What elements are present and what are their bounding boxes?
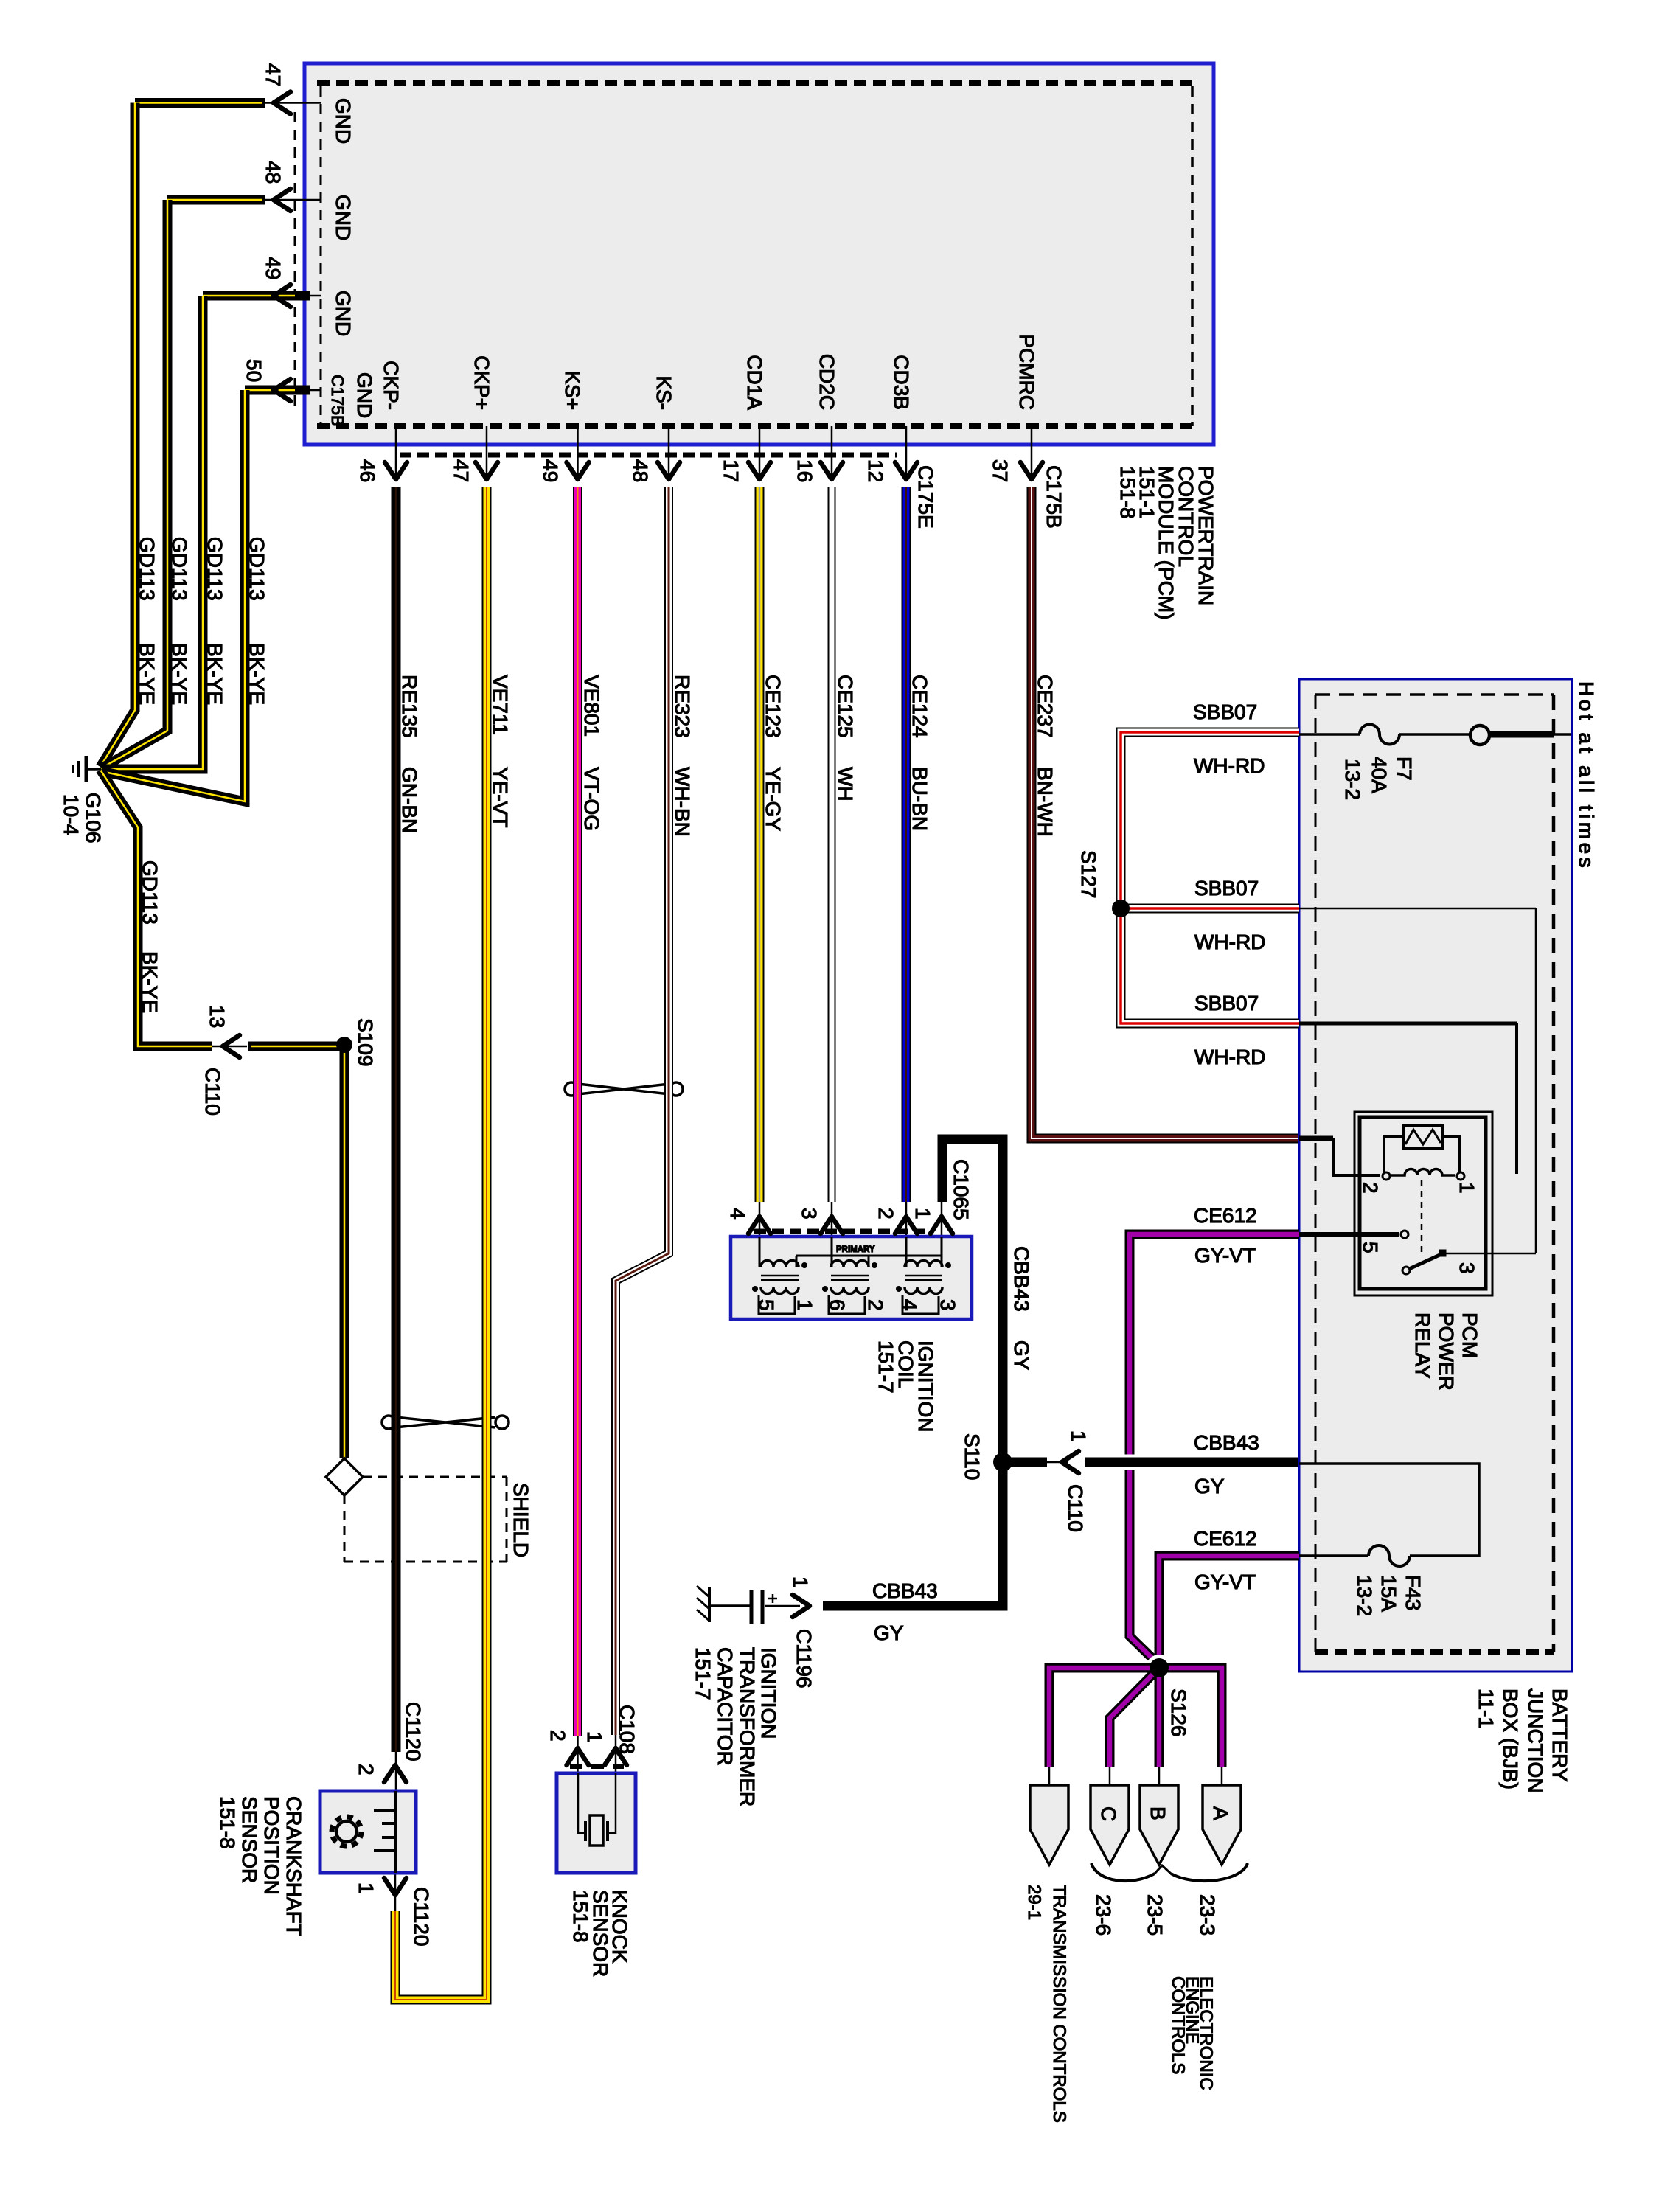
- svg-text:PCM: PCM: [1458, 1312, 1481, 1358]
- svg-text:3: 3: [798, 1208, 821, 1220]
- svg-text:151-8: 151-8: [569, 1890, 592, 1943]
- svg-text:JUNCTION: JUNCTION: [1524, 1688, 1547, 1793]
- svg-text:16: 16: [793, 459, 816, 482]
- svg-text:CKP+: CKP+: [470, 355, 493, 410]
- svg-text:C1065: C1065: [950, 1159, 973, 1220]
- svg-text:3: 3: [1455, 1262, 1478, 1274]
- svg-text:YE-VT: YE-VT: [489, 767, 512, 827]
- svg-text:KS-: KS-: [653, 375, 675, 410]
- svg-text:1: 1: [1067, 1430, 1090, 1442]
- svg-text:48: 48: [262, 161, 285, 184]
- svg-text:BN-WH: BN-WH: [1034, 767, 1057, 837]
- svg-text:151-7: 151-7: [692, 1647, 714, 1700]
- svg-text:RE323: RE323: [671, 675, 694, 738]
- svg-text:CE123: CE123: [762, 675, 785, 738]
- svg-text:2: 2: [864, 1299, 887, 1311]
- svg-text:BK-YE: BK-YE: [246, 643, 268, 705]
- svg-text:CAPACITOR: CAPACITOR: [714, 1647, 737, 1766]
- svg-text:4: 4: [898, 1299, 921, 1311]
- svg-text:C175B: C175B: [328, 375, 347, 426]
- svg-text:3: 3: [936, 1299, 959, 1311]
- svg-text:GD113: GD113: [204, 537, 226, 601]
- svg-text:C110: C110: [1064, 1484, 1087, 1532]
- svg-text:CBB43: CBB43: [872, 1579, 938, 1602]
- svg-text:C108: C108: [616, 1705, 639, 1754]
- svg-text:TRANSMISSION CONTROLS: TRANSMISSION CONTROLS: [1049, 1885, 1069, 2123]
- svg-text:GY-VT: GY-VT: [1194, 1244, 1256, 1267]
- svg-text:10-4: 10-4: [60, 794, 83, 835]
- svg-text:VT-OG: VT-OG: [580, 767, 603, 831]
- svg-text:C: C: [1097, 1806, 1120, 1821]
- svg-text:S110: S110: [961, 1433, 984, 1480]
- svg-text:C175B: C175B: [1043, 465, 1065, 529]
- svg-text:CBB43: CBB43: [1010, 1246, 1033, 1312]
- svg-text:C1120: C1120: [402, 1702, 425, 1761]
- svg-text:1: 1: [789, 1576, 812, 1588]
- svg-text:GD113: GD113: [136, 537, 159, 601]
- svg-text:POSITION: POSITION: [260, 1796, 283, 1895]
- svg-text:G106: G106: [82, 793, 105, 844]
- svg-text:1: 1: [583, 1731, 606, 1743]
- svg-text:151-8: 151-8: [1116, 466, 1139, 519]
- svg-text:GND: GND: [332, 195, 355, 240]
- svg-text:2: 2: [355, 1764, 378, 1775]
- svg-text:B: B: [1147, 1806, 1169, 1820]
- svg-text:GY: GY: [1010, 1340, 1033, 1371]
- svg-text:VE801: VE801: [580, 675, 603, 737]
- svg-text:SENSOR: SENSOR: [238, 1796, 261, 1883]
- svg-text:GY: GY: [874, 1621, 904, 1644]
- svg-text:4: 4: [726, 1208, 749, 1220]
- svg-text:6: 6: [826, 1299, 849, 1311]
- svg-text:151-8: 151-8: [216, 1796, 239, 1849]
- svg-text:SBB07: SBB07: [1194, 877, 1259, 900]
- svg-text:40A: 40A: [1368, 757, 1391, 793]
- svg-text:BK-YE: BK-YE: [136, 643, 159, 705]
- svg-text:13: 13: [206, 1005, 229, 1028]
- svg-text:BOX (BJB): BOX (BJB): [1499, 1688, 1522, 1790]
- svg-text:C110: C110: [201, 1068, 224, 1116]
- svg-text:RE135: RE135: [398, 675, 421, 738]
- svg-text:BATTERY: BATTERY: [1548, 1688, 1571, 1782]
- svg-text:F7: F7: [1393, 757, 1416, 781]
- svg-text:WH-RD: WH-RD: [1194, 1046, 1265, 1068]
- svg-text:5: 5: [755, 1299, 778, 1311]
- svg-text:SBB07: SBB07: [1193, 700, 1257, 723]
- svg-text:GY-VT: GY-VT: [1194, 1571, 1256, 1593]
- svg-text:GY: GY: [1194, 1475, 1225, 1498]
- svg-text:CE124: CE124: [908, 675, 931, 738]
- svg-text:47: 47: [262, 63, 285, 86]
- svg-text:GND: GND: [332, 98, 355, 144]
- svg-text:151-7: 151-7: [874, 1340, 897, 1394]
- svg-text:KS+: KS+: [561, 370, 584, 410]
- svg-text:1: 1: [911, 1208, 934, 1220]
- svg-text:PRIMARY: PRIMARY: [836, 1245, 875, 1254]
- svg-text:YE-GY: YE-GY: [762, 767, 785, 831]
- svg-text:2: 2: [1359, 1182, 1382, 1194]
- svg-text:GND: GND: [353, 372, 376, 418]
- svg-text:1: 1: [355, 1882, 378, 1894]
- svg-text:CRANKSHAFT: CRANKSHAFT: [282, 1796, 305, 1936]
- svg-text:BK-YE: BK-YE: [168, 643, 191, 705]
- svg-text:37: 37: [989, 459, 1012, 482]
- svg-text:49: 49: [262, 257, 285, 279]
- svg-text:C1120: C1120: [410, 1887, 433, 1946]
- svg-text:CONTROLS: CONTROLS: [1168, 1976, 1188, 2074]
- svg-text:POWER: POWER: [1435, 1312, 1458, 1391]
- svg-text:S109: S109: [354, 1018, 377, 1066]
- svg-text:S126: S126: [1167, 1688, 1190, 1736]
- svg-text:17: 17: [720, 459, 742, 482]
- svg-text:CE237: CE237: [1034, 675, 1057, 738]
- svg-text:GND: GND: [332, 291, 355, 336]
- svg-text:TRANSFORMER: TRANSFORMER: [736, 1647, 759, 1806]
- svg-text:F43: F43: [1402, 1575, 1425, 1610]
- svg-text:13-2: 13-2: [1341, 759, 1364, 800]
- svg-text:49: 49: [539, 459, 562, 482]
- svg-text:BU-BN: BU-BN: [908, 767, 931, 831]
- svg-text:WH: WH: [834, 767, 857, 801]
- svg-text:S127: S127: [1077, 850, 1100, 898]
- svg-text:2: 2: [874, 1208, 897, 1220]
- svg-text:VE711: VE711: [489, 675, 512, 735]
- svg-text:PCMRC: PCMRC: [1015, 334, 1038, 410]
- svg-text:BK-YE: BK-YE: [204, 643, 226, 705]
- svg-text:2: 2: [546, 1730, 569, 1742]
- svg-text:CD2C: CD2C: [815, 354, 838, 410]
- svg-text:CE612: CE612: [1194, 1204, 1257, 1227]
- svg-text:CD1A: CD1A: [743, 355, 766, 410]
- svg-text:1: 1: [793, 1299, 816, 1311]
- svg-text:23-3: 23-3: [1196, 1894, 1219, 1935]
- svg-text:CE612: CE612: [1194, 1527, 1257, 1550]
- svg-text:11-1: 11-1: [1475, 1688, 1498, 1728]
- svg-text:13-2: 13-2: [1353, 1575, 1376, 1616]
- svg-text:C1196: C1196: [793, 1629, 815, 1688]
- svg-text:WH-RD: WH-RD: [1194, 931, 1265, 953]
- svg-text:CKP-: CKP-: [380, 361, 403, 410]
- svg-text:15A: 15A: [1377, 1575, 1400, 1612]
- svg-text:Hot at all times: Hot at all times: [1575, 681, 1598, 871]
- svg-text:47: 47: [450, 459, 473, 482]
- svg-text:CD3B: CD3B: [890, 355, 913, 410]
- svg-text:1: 1: [1455, 1182, 1478, 1194]
- svg-text:WH-RD: WH-RD: [1194, 754, 1265, 777]
- svg-text:GN-BN: GN-BN: [398, 767, 421, 833]
- svg-text:GD113: GD113: [168, 537, 191, 601]
- svg-text:29-1: 29-1: [1024, 1885, 1044, 1920]
- svg-text:GD113: GD113: [139, 860, 161, 925]
- svg-text:GD113: GD113: [246, 537, 268, 601]
- svg-text:12: 12: [864, 459, 887, 482]
- svg-text:23-6: 23-6: [1092, 1894, 1115, 1935]
- svg-text:RELAY: RELAY: [1411, 1312, 1434, 1379]
- svg-text:WH-BN: WH-BN: [671, 767, 694, 837]
- svg-text:C175E: C175E: [914, 465, 937, 529]
- svg-text:A: A: [1209, 1806, 1232, 1820]
- svg-text:IGNITION: IGNITION: [757, 1647, 780, 1739]
- svg-text:SHIELD: SHIELD: [509, 1483, 532, 1557]
- svg-text:BK-YE: BK-YE: [139, 951, 161, 1013]
- svg-text:23-5: 23-5: [1144, 1894, 1166, 1935]
- svg-text:5: 5: [1359, 1242, 1382, 1253]
- svg-text:46: 46: [356, 459, 379, 482]
- svg-text:CBB43: CBB43: [1194, 1431, 1259, 1454]
- svg-text:SBB07: SBB07: [1194, 992, 1259, 1015]
- svg-text:50: 50: [243, 359, 265, 382]
- svg-text:CE125: CE125: [834, 675, 857, 738]
- svg-text:48: 48: [629, 459, 652, 482]
